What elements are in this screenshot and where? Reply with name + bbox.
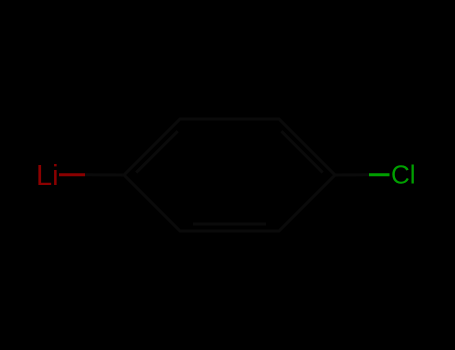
bond Li-C1 (Li half, dark red) <box>59 173 85 176</box>
double bond inner line C5=C6 (bottom) <box>193 223 266 226</box>
double bond inner line C3=C4 (upper-right) <box>281 131 322 172</box>
bond C4-Cl (Cl half, green) <box>369 173 390 176</box>
double bond inner line C1=C2 (upper-left) <box>136 131 178 172</box>
bond C4-Cl (C half, dark) <box>335 173 369 176</box>
svg-text:Cl: Cl <box>391 160 416 190</box>
svg-text:Li: Li <box>36 160 59 192</box>
benzene ring outline <box>124 119 335 231</box>
bond Li-C1 (C half, dark) <box>85 173 124 176</box>
